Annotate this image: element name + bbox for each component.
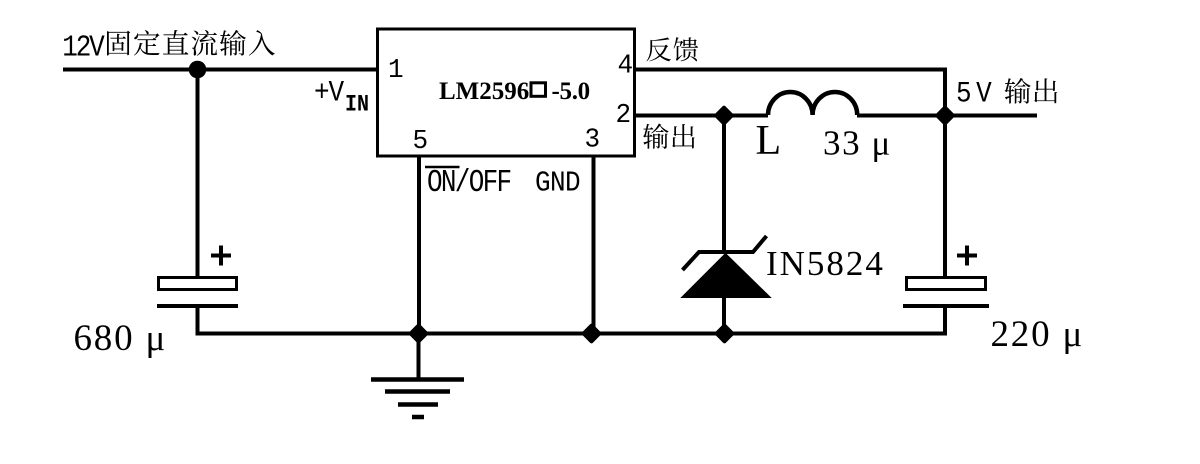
capacitor C2 220u polarity + — [957, 246, 977, 266]
wire output capacitor branch — [943, 116, 947, 277]
svg-text:-5.0: -5.0 — [552, 78, 590, 105]
ground — [371, 334, 464, 418]
label feedback (反馈) — [646, 37, 698, 61]
svg-text:5V: 5V — [956, 78, 996, 111]
label +VIN — [314, 77, 369, 118]
wire feedback pin4 — [634, 70, 945, 116]
svg-text:ON/OFF: ON/OFF — [427, 165, 511, 201]
node bus pin3 junction — [584, 326, 600, 342]
node bus diode junction — [717, 326, 733, 342]
svg-text:1: 1 — [388, 55, 404, 85]
IC U1 LM2596 box — [378, 29, 635, 156]
svg-text:33 μ: 33 μ — [823, 124, 892, 163]
label 5V output (5V 输出) — [956, 78, 1057, 111]
label 12V fixed DC input (12V固定直流输入) — [62, 29, 275, 65]
svg-text:5: 5 — [413, 126, 429, 156]
capacitor C2 220u top plate — [907, 278, 986, 290]
capacitor C1 680u top plate — [159, 278, 237, 290]
diode D1 cathode bar with ticks — [683, 236, 767, 270]
wire output pin2 — [634, 114, 768, 118]
svg-text:12V: 12V — [62, 29, 104, 65]
svg-text:GND: GND — [535, 167, 580, 200]
wire ground bus — [196, 332, 948, 336]
svg-text:220 μ: 220 μ — [991, 314, 1085, 355]
wire inductor to output — [857, 114, 1037, 118]
node input junction — [189, 61, 207, 79]
capacitor C1 680u polarity + — [211, 246, 231, 266]
svg-text:680 μ: 680 μ — [74, 318, 168, 359]
svg-text:+V: +V — [314, 77, 344, 110]
inductor L1 — [768, 92, 857, 115]
wire diode anode to bus — [722, 296, 726, 336]
wire C1 to ground bus — [196, 306, 200, 336]
node diode junction — [716, 108, 732, 124]
svg-text:IN: IN — [345, 92, 369, 118]
label output (输出) under pin2 — [643, 124, 695, 149]
svg-text:LM2596: LM2596 — [439, 78, 529, 105]
node bus pin5 junction — [411, 326, 427, 342]
svg-text:2: 2 — [616, 100, 632, 130]
svg-text:IN5824: IN5824 — [766, 244, 885, 283]
wire pin5 to bus — [417, 156, 421, 336]
svg-text:3: 3 — [585, 124, 601, 154]
svg-text:L: L — [756, 118, 782, 164]
wire pin3 to bus — [592, 156, 596, 336]
wire input capacitor branch — [196, 70, 200, 277]
capacitor C2 220u bottom plate — [903, 304, 989, 308]
wire C2 to ground bus — [943, 306, 947, 336]
label LM2596-5.0 — [439, 78, 590, 105]
svg-text:4: 4 — [618, 50, 634, 80]
capacitor C1 680u bottom plate — [157, 304, 238, 308]
wire input horizontal — [63, 68, 377, 72]
node output junction — [937, 108, 953, 124]
wire diode cathode branch — [722, 116, 726, 254]
label ON/OFF with overline — [425, 165, 511, 201]
diode D1 triangle — [682, 254, 771, 298]
